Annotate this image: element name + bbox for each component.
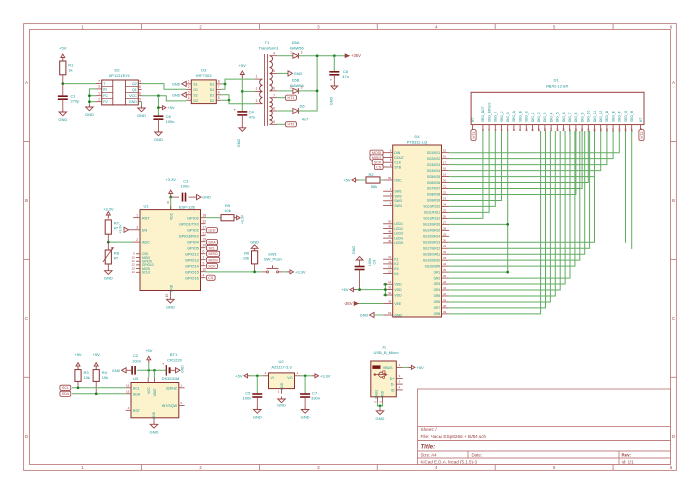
svg-text:100n: 100n: [181, 184, 190, 189]
capacitor C9: [355, 258, 377, 290]
svg-text:DOUT: DOUT: [394, 156, 404, 160]
svg-text:SG19/GR10: SG19/GR10: [423, 258, 441, 262]
svg-text:2: 2: [136, 238, 138, 242]
svg-text:6: 6: [139, 85, 141, 89]
svg-text:GPIO4: GPIO4: [187, 240, 199, 244]
svg-text:D2: D2: [114, 68, 120, 73]
svg-text:2: 2: [188, 85, 190, 89]
svg-text:GND: GND: [301, 415, 310, 420]
svg-text:20: 20: [203, 243, 207, 247]
svg-text:DS3231M: DS3231M: [162, 376, 180, 381]
svg-text:HT1: HT1: [472, 132, 476, 139]
ground flag: [197, 195, 211, 200]
svg-text:VCC: VCC: [129, 94, 137, 98]
wire usb gnd: [378, 403, 383, 409]
diode D6: [277, 90, 318, 122]
svg-text:DIG_4: DIG_4: [549, 112, 553, 122]
net label HT2: [277, 122, 296, 127]
connector J1 VFD tube body: [471, 78, 644, 125]
svg-text:SEG_H: SEG_H: [630, 110, 634, 122]
svg-text:50: 50: [388, 220, 392, 224]
svg-text:8: 8: [273, 107, 275, 111]
svg-text:43: 43: [443, 286, 447, 290]
svg-text:GND: GND: [253, 415, 262, 420]
ground: [301, 407, 310, 420]
svg-text:GPIO13: GPIO13: [185, 258, 199, 262]
svg-text:23: 23: [443, 196, 447, 200]
svg-text:3: 3: [256, 99, 258, 103]
svg-text:GND: GND: [394, 313, 402, 317]
svg-text:DIG_6: DIG_6: [562, 112, 566, 122]
svg-text:CLK: CLK: [394, 161, 401, 165]
usb icon: [374, 371, 388, 378]
svg-text:SEG_D: SEG_D: [605, 110, 609, 122]
svg-text:SEG_G: SEG_G: [624, 110, 628, 122]
svg-text:16: 16: [443, 155, 447, 159]
svg-text:34: 34: [388, 291, 392, 295]
wire SDA: [72, 392, 126, 395]
svg-text:SCL: SCL: [133, 386, 140, 390]
svg-text:КР1211ЕУ1: КР1211ЕУ1: [109, 73, 131, 78]
svg-text:D5B: D5B: [292, 77, 300, 82]
svg-text:+3.3V: +3.3V: [103, 207, 114, 212]
svg-text:28: 28: [443, 226, 447, 230]
svg-text:33: 33: [443, 256, 447, 260]
svg-text:HT1: HT1: [288, 96, 295, 100]
svg-text:VDD: VDD: [394, 288, 402, 292]
svg-text:CS: CS: [376, 165, 382, 169]
svg-text:SDA: SDA: [208, 241, 216, 245]
svg-text:GND: GND: [112, 369, 121, 373]
svg-text:Transform1: Transform1: [258, 46, 279, 51]
ground: [277, 397, 286, 408]
svg-text:3: 3: [301, 86, 303, 90]
svg-text:SG14/GR15: SG14/GR15: [423, 229, 441, 233]
svg-text:1: 1: [188, 80, 190, 84]
svg-text:Q1: Q1: [132, 88, 137, 92]
svg-text:8: 8: [218, 80, 220, 84]
svg-text:C2: C2: [133, 353, 139, 358]
svg-text:SG2/KS2: SG2/KS2: [427, 157, 441, 161]
svg-text:RST: RST: [142, 216, 150, 220]
svg-text:GND: GND: [150, 429, 159, 434]
svg-text:33: 33: [388, 286, 392, 290]
svg-text:U1: U1: [143, 203, 149, 208]
svg-text:+3.3V: +3.3V: [165, 177, 176, 182]
svg-text:+5V: +5V: [341, 287, 349, 292]
svg-text:GND: GND: [129, 100, 137, 104]
svg-text:2: 2: [256, 87, 258, 91]
svg-text:10k: 10k: [224, 208, 230, 213]
svg-text:15: 15: [555, 128, 559, 132]
svg-text:LED2: LED2: [394, 227, 403, 231]
svg-text:22: 22: [443, 190, 447, 194]
svg-text:1: 1: [290, 51, 292, 55]
svg-text:EN: EN: [142, 228, 148, 232]
svg-text:SCL: SCL: [62, 386, 69, 390]
svg-text:GR1: GR1: [434, 270, 441, 274]
svg-text:D: D: [25, 434, 28, 439]
capacitor C3: [171, 178, 197, 201]
svg-text:INT/SQW: INT/SQW: [162, 404, 178, 408]
svg-text:VDD: VDD: [394, 283, 402, 287]
wire VBUS +5V: [403, 365, 424, 370]
svg-text:VCC: VCC: [169, 212, 173, 220]
svg-text:VO: VO: [287, 376, 292, 380]
resistor R6: [243, 251, 258, 272]
resistor R2: [366, 172, 383, 189]
svg-text:HT2: HT2: [640, 132, 644, 139]
svg-text:1: 1: [256, 75, 258, 79]
svg-text:GND: GND: [360, 314, 369, 318]
svg-text:SEG_I: SEG_I: [494, 112, 498, 122]
svg-text:3: 3: [98, 85, 100, 89]
svg-text:+5V: +5V: [93, 352, 101, 357]
svg-text:GND: GND: [172, 93, 181, 97]
svg-text:T1: T1: [265, 40, 270, 45]
wire VO: [301, 374, 313, 377]
svg-text:SG3/KS3: SG3/KS3: [427, 163, 441, 167]
svg-text:MOSI: MOSI: [209, 258, 218, 262]
svg-text:GR5: GR5: [434, 294, 441, 298]
svg-text:42: 42: [443, 292, 447, 296]
svg-text:AZ1117-3.3: AZ1117-3.3: [271, 364, 292, 369]
svg-text:SG8/KS8: SG8/KS8: [427, 193, 441, 197]
svg-text:5: 5: [139, 97, 141, 101]
svg-text:9: 9: [273, 120, 275, 124]
svg-text:SG20/GR9: SG20/GR9: [425, 264, 441, 268]
net label HT1: [277, 95, 296, 100]
power +3.3V: [165, 177, 176, 197]
power +3.3V: [103, 207, 114, 219]
svg-text:DIG_9: DIG_9: [580, 112, 584, 122]
svg-text:S2: S2: [193, 93, 197, 97]
svg-text:10k: 10k: [84, 375, 90, 380]
power +3.3V rotated: [234, 214, 245, 224]
svg-text:D+: D+: [390, 377, 395, 381]
svg-text:SEG_B: SEG_B: [518, 110, 522, 122]
svg-text:BT1: BT1: [170, 352, 178, 357]
svg-text:21: 21: [443, 185, 447, 189]
ic U2 AZ1117-3.3 body: [269, 359, 295, 390]
svg-text:GPIO3/RX0: GPIO3/RX0: [179, 234, 199, 238]
wire rtc top rail: [137, 363, 166, 377]
svg-text:HT: HT: [639, 118, 643, 122]
label -36V VEE: [344, 301, 383, 306]
title block: [418, 389, 671, 465]
svg-text:GND: GND: [172, 82, 181, 86]
svg-text:52: 52: [388, 176, 392, 180]
power +3.3V: [312, 373, 331, 378]
svg-text:+: +: [330, 78, 333, 83]
svg-text:D5A: D5A: [292, 40, 300, 45]
svg-text:LED5: LED5: [394, 241, 403, 245]
wire GPIO0: [206, 217, 222, 219]
svg-text:SG10/KS10: SG10/KS10: [423, 205, 440, 209]
svg-text:SG13/GR16: SG13/GR16: [423, 223, 441, 227]
svg-text:13: 13: [388, 269, 392, 273]
wire GPIO15: [206, 271, 263, 274]
svg-text:10k: 10k: [243, 256, 249, 261]
svg-text:LED1: LED1: [394, 222, 403, 226]
capacitor C5: [242, 376, 262, 407]
power +5V left: [235, 373, 262, 378]
svg-text:File: Часы ESp8266 + ВЛИ.sch: File: Часы ESp8266 + ВЛИ.sch: [421, 434, 487, 439]
svg-text:IN: IN: [103, 87, 107, 91]
svg-text:D1: D1: [210, 88, 215, 92]
svg-text:FC: FC: [103, 94, 108, 98]
ground flag: [172, 81, 186, 86]
resistor R3: [75, 370, 90, 388]
svg-text:3: 3: [188, 91, 190, 95]
J1 pins: [373, 363, 402, 403]
svg-text:CR1220: CR1220: [167, 357, 182, 362]
svg-text:DIG_12: DIG_12: [599, 110, 603, 122]
svg-text:GPIO0: GPIO0: [187, 216, 199, 220]
ic U3 DS3231M body: [131, 376, 179, 419]
svg-text:GPIO1/TX0: GPIO1/TX0: [179, 222, 199, 226]
ground: [166, 297, 175, 310]
svg-text:SW3: SW3: [394, 199, 401, 203]
svg-text:14: 14: [549, 128, 553, 132]
svg-text:Title:: Title:: [421, 444, 436, 451]
capacitor C8: [153, 114, 174, 130]
svg-text:SEG_J: SEG_J: [500, 111, 504, 122]
svg-text:SW4: SW4: [394, 204, 401, 208]
svg-text:VEE: VEE: [394, 302, 402, 306]
net label SDA: [60, 391, 71, 396]
svg-text:VDD: VDD: [394, 293, 402, 297]
ground flag: [112, 368, 126, 373]
svg-text:ESP-12E: ESP-12E: [179, 204, 196, 209]
svg-text:GPIO12: GPIO12: [185, 252, 199, 256]
svg-text:+5V: +5V: [343, 178, 351, 183]
svg-text:GND: GND: [277, 403, 286, 407]
svg-text:VI: VI: [271, 376, 274, 380]
svg-text:D2: D2: [210, 93, 215, 97]
svg-text:35: 35: [388, 299, 392, 303]
svg-text:10: 10: [524, 128, 528, 132]
svg-text:SEG_MINUS: SEG_MINUS: [487, 102, 491, 122]
svg-text:29: 29: [443, 232, 447, 236]
svg-text:Q2: Q2: [132, 82, 137, 86]
svg-text:DIG_5: DIG_5: [556, 112, 560, 122]
J1 pins: [471, 102, 643, 132]
battery BT1 CR1220: [162, 352, 183, 376]
svg-text:26: 26: [443, 214, 447, 218]
U1 pins right: [179, 213, 207, 280]
svg-text:17: 17: [203, 225, 207, 229]
svg-text:C: C: [25, 316, 28, 321]
svg-text:HT: HT: [471, 118, 475, 122]
transformer T1 secondary windings: [270, 51, 278, 124]
svg-text:C9: C9: [373, 260, 377, 265]
resistor R4: [93, 370, 108, 394]
svg-text:-36V: -36V: [344, 301, 353, 306]
ic U1 ESP-12E body: [140, 201, 201, 298]
svg-text:GND: GND: [352, 246, 356, 255]
power +5V: [74, 352, 82, 370]
svg-text:SW_Push: SW_Push: [264, 256, 282, 261]
svg-text:G2: G2: [193, 99, 198, 103]
ground flag: [172, 92, 186, 97]
resistor R7: [105, 220, 120, 242]
svg-text:+5V: +5V: [416, 365, 424, 370]
svg-text:5: 5: [218, 96, 220, 100]
svg-text:R*: R*: [114, 256, 119, 261]
svg-text:GR2: GR2: [434, 276, 441, 280]
svg-text:15: 15: [126, 390, 130, 394]
resistor R5: [221, 203, 234, 221]
svg-text:KiCad E.D.A. kicad (5.1.5)-3: KiCad E.D.A. kicad (5.1.5)-3: [421, 459, 478, 464]
capacitor C2: [126, 353, 141, 375]
ground: [104, 268, 113, 281]
svg-text:SEG_C: SEG_C: [525, 110, 529, 122]
svg-text:16: 16: [203, 267, 207, 271]
svg-text:GND: GND: [330, 97, 334, 106]
svg-text:6: 6: [203, 249, 205, 253]
svg-text:6: 6: [273, 87, 275, 91]
svg-text:48: 48: [388, 229, 392, 233]
svg-text:SCLK: SCLK: [142, 271, 151, 275]
net label HT2 vertical: [639, 130, 644, 141]
transformer T1 core: [258, 40, 279, 126]
svg-text:1: 1: [98, 91, 100, 95]
wire +5V to center tap: [241, 78, 254, 112]
svg-text:VCC: VCC: [147, 386, 151, 393]
svg-text:35: 35: [443, 268, 447, 272]
svg-text:100n: 100n: [132, 358, 141, 363]
svg-text:RST: RST: [133, 409, 141, 413]
svg-text:U3: U3: [133, 376, 139, 381]
svg-text:41: 41: [443, 298, 447, 302]
svg-text:GND: GND: [166, 304, 175, 309]
svg-text:GR6: GR6: [434, 300, 441, 304]
svg-text:SEG_F: SEG_F: [618, 111, 622, 122]
svg-text:SDA: SDA: [62, 392, 70, 396]
U3 pins: [126, 378, 185, 422]
svg-text:10: 10: [388, 255, 392, 259]
svg-text:GPIO16: GPIO16: [185, 276, 199, 280]
svg-text:GR3: GR3: [434, 282, 441, 286]
svg-text:LED: LED: [208, 229, 215, 233]
transformer T1 primary winding: [254, 75, 262, 104]
svg-text:SG9/KS9: SG9/KS9: [427, 199, 441, 203]
svg-text:31: 31: [443, 244, 447, 248]
svg-text:R2: R2: [368, 172, 374, 177]
svg-text:GND: GND: [154, 137, 163, 142]
svg-text:Id: 1/1: Id: 1/1: [622, 459, 635, 464]
svg-text:OSC: OSC: [394, 178, 402, 182]
power flag EN +3.3V: [119, 224, 134, 234]
wire VCC rail: [142, 94, 187, 116]
svg-text:4: 4: [203, 273, 205, 277]
svg-text:SCL: SCL: [208, 246, 215, 250]
svg-text:100n: 100n: [242, 396, 251, 401]
svg-text:+3.3V: +3.3V: [320, 373, 331, 378]
svg-text:GPIO15: GPIO15: [185, 270, 199, 274]
power +5V left: [343, 178, 366, 183]
svg-text:40: 40: [443, 304, 447, 308]
power +5V: [239, 63, 247, 78]
ground flag GND pin: [360, 312, 383, 317]
svg-text:K1: K1: [394, 258, 398, 262]
svg-text:HT2: HT2: [288, 123, 295, 127]
resistor R8 photo: [103, 242, 120, 268]
power +5V VDD: [341, 287, 356, 292]
svg-text:34: 34: [443, 262, 447, 266]
svg-text:SG4/KS4: SG4/KS4: [427, 169, 441, 173]
svg-text:SG17/GR12: SG17/GR12: [423, 246, 441, 250]
capacitor C1: [58, 84, 80, 110]
svg-text:ADC: ADC: [142, 241, 150, 245]
ic D4 PT6311-LQ body: [393, 134, 442, 317]
ground: [85, 105, 94, 118]
svg-text:SG5/KS5: SG5/KS5: [427, 175, 441, 179]
D4 pins left: [383, 149, 404, 318]
svg-text:GPIO2: GPIO2: [187, 228, 199, 232]
ground above R6: [250, 239, 259, 251]
svg-text:GR8: GR8: [434, 312, 441, 316]
svg-text:DIG_11: DIG_11: [593, 111, 597, 122]
svg-text:B: B: [672, 198, 675, 203]
svg-text:GND: GND: [104, 276, 113, 281]
svg-text:1k: 1k: [68, 68, 72, 73]
svg-text:5: 5: [203, 261, 205, 265]
svg-text:GR4: GR4: [434, 288, 441, 292]
U1 pins left: [131, 213, 153, 274]
svg-text:+5V: +5V: [59, 46, 67, 51]
svg-text:GND: GND: [137, 113, 146, 118]
svg-text:44: 44: [443, 280, 447, 284]
svg-text:GND: GND: [85, 112, 94, 117]
svg-text:32KHZ: 32KHZ: [166, 386, 178, 390]
svg-text:SG1/KS1: SG1/KS1: [427, 151, 441, 155]
svg-text:18: 18: [203, 213, 207, 217]
U2 pins: [263, 371, 301, 394]
svg-text:FV: FV: [103, 100, 108, 104]
ground: [137, 106, 146, 119]
node junction: [61, 82, 64, 85]
connector J1 USB_B_Micro body: [371, 345, 400, 399]
svg-text:49: 49: [388, 225, 392, 229]
svg-text:+3.3V: +3.3V: [295, 269, 306, 274]
svg-text:46: 46: [388, 239, 392, 243]
svg-text:GND: GND: [169, 284, 173, 292]
svg-text:+5V: +5V: [145, 348, 153, 353]
svg-text:PT6311-LQ: PT6311-LQ: [407, 139, 427, 144]
transistor D3 IRF7305 body: [191, 68, 216, 104]
svg-text:SEG_A: SEG_A: [512, 110, 516, 122]
svg-text:14: 14: [388, 280, 392, 284]
capacitor C7: [300, 376, 320, 407]
svg-text:LED4: LED4: [394, 236, 403, 240]
wire D2 pair: [221, 95, 254, 104]
svg-text:D3: D3: [201, 68, 207, 73]
svg-text:GPIO14: GPIO14: [185, 264, 199, 268]
svg-text:GND: GND: [294, 72, 303, 76]
node: [169, 196, 172, 199]
power +5V: [93, 352, 101, 370]
net label boxes right: [207, 228, 220, 281]
U1 VCC GND stubs: [169, 206, 171, 297]
svg-text:3: 3: [301, 51, 303, 55]
svg-text:19: 19: [203, 237, 207, 241]
svg-text:+5V: +5V: [167, 105, 175, 110]
svg-text:DIG_2: DIG_2: [537, 112, 541, 122]
U2 pins right: [129, 79, 142, 104]
svg-text:SG18/GR11: SG18/GR11: [423, 252, 440, 256]
